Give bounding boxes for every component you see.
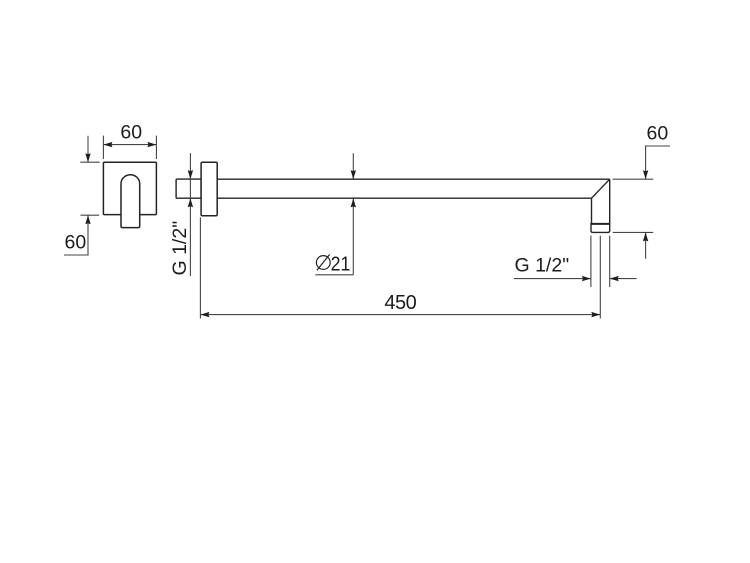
dim 450: right arrowhead bbox=[591, 312, 600, 317]
dim 60 width: left arrowhead bbox=[103, 142, 112, 147]
dim 450: pipe right extension line bbox=[609, 236, 611, 287]
dim G1/2 right: left arrowhead bbox=[582, 276, 591, 281]
svg-text:G 1/2": G 1/2" bbox=[515, 255, 570, 277]
dim 60 width: right arrowhead bbox=[147, 142, 156, 147]
side view: drop pipe left edge bbox=[591, 198, 593, 224]
svg-text:G 1/2": G 1/2" bbox=[169, 221, 191, 276]
dim 60 height: top extension line bbox=[80, 161, 99, 163]
svg-text:60: 60 bbox=[120, 122, 142, 144]
dim G1/2 left: upper dimension line bbox=[189, 153, 191, 179]
dim 60 width: left extension line bbox=[102, 136, 104, 159]
dim 60 height: upper arrowhead bbox=[85, 153, 90, 162]
dim diameter 21: upper dimension line bbox=[352, 153, 354, 179]
front view: wall flange square bbox=[103, 162, 156, 214]
dim 450: right extension line (pipe centerline) bbox=[599, 236, 601, 319]
dim G1/2 left: lower dimension line bbox=[189, 198, 191, 276]
dim 450: left arrowhead bbox=[200, 312, 209, 317]
dim 450: pipe left extension line bbox=[590, 236, 592, 287]
dim 60 drop: lower dimension line bbox=[645, 232, 647, 258]
dim 60 width: right extension line bbox=[155, 136, 157, 159]
dim G1/2 right: left dimension line bbox=[514, 278, 591, 280]
side view: bend miter line bbox=[592, 179, 610, 198]
dim G1/2 left: lower arrowhead bbox=[188, 198, 193, 207]
dim diameter 21: upper arrowhead bbox=[351, 170, 356, 179]
dim 60 drop: upper dimension line bbox=[645, 146, 647, 179]
dim 60 height: bottom extension line bbox=[81, 214, 100, 216]
dim 60 height: lower arrowhead bbox=[85, 215, 90, 224]
label diameter 21: circle of diameter symbol bbox=[316, 256, 330, 270]
dim diameter 21: lower arrowhead bbox=[351, 198, 356, 207]
dim 60 drop: lower extension line bbox=[613, 231, 654, 233]
dim 60 drop: lower arrowhead bbox=[643, 232, 648, 241]
svg-text:60: 60 bbox=[647, 123, 669, 145]
side view: tube bottom line bbox=[217, 197, 591, 199]
side view: wall flange bbox=[201, 162, 217, 216]
dim G1/2 left: dimension line through stub bbox=[189, 179, 191, 198]
svg-text:450: 450 bbox=[384, 292, 416, 314]
svg-text:21: 21 bbox=[331, 253, 351, 275]
front view: arm cross-section (rounded-top slot) bbox=[121, 175, 140, 228]
side view: tube top line bbox=[217, 178, 610, 180]
side view: thread band top line bbox=[591, 223, 610, 225]
dim 60 drop: shelf line bbox=[645, 145, 670, 147]
dim 60 width: dimension line bbox=[103, 144, 156, 146]
side view: drop pipe right edge bbox=[609, 179, 611, 224]
dim 450: left extension line bbox=[199, 217, 201, 318]
dim G1/2 right: right arrowhead bbox=[610, 276, 619, 281]
dim diameter 21: lower dimension line bbox=[352, 198, 354, 274]
svg-text:60: 60 bbox=[65, 232, 87, 254]
side view: wall thread stub bbox=[176, 179, 201, 198]
dim G1/2 right: right dimension line bbox=[610, 278, 637, 280]
label diameter 21: slash of diameter symbol bbox=[317, 254, 330, 270]
dim 450: dimension line bbox=[200, 314, 600, 316]
side view: thread band outline bbox=[591, 224, 610, 233]
dim 60 drop: upper extension line bbox=[613, 178, 654, 180]
dim 60 height: upper dimension line bbox=[87, 136, 89, 162]
dim G1/2 left: upper arrowhead bbox=[188, 170, 193, 179]
dim diameter 21: leader underline bbox=[315, 274, 353, 276]
dim 60 drop: upper arrowhead bbox=[643, 170, 648, 179]
dim 60 height: leader line bbox=[64, 254, 89, 256]
dim 60 height: lower dimension line bbox=[87, 215, 89, 255]
